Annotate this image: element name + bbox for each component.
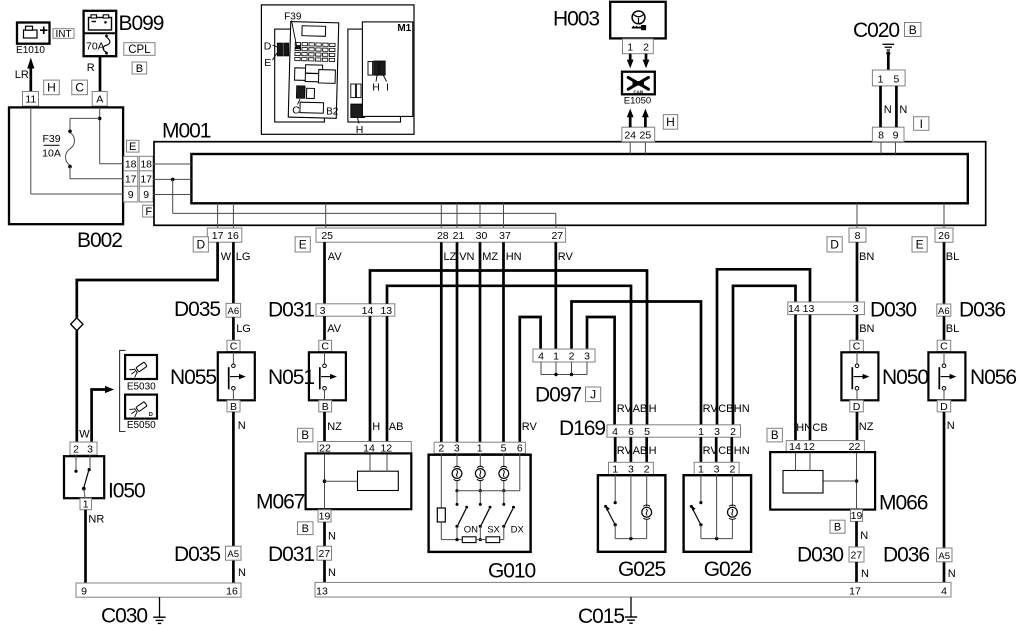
svg-text:16: 16 (226, 586, 238, 598)
svg-text:9: 9 (128, 189, 134, 201)
svg-text:3: 3 (714, 463, 720, 475)
svg-text:A6: A6 (938, 306, 950, 317)
svg-text:27: 27 (318, 548, 330, 560)
svg-text:1: 1 (612, 463, 618, 475)
svg-text:H003: H003 (553, 8, 599, 31)
svg-text:B2: B2 (326, 107, 339, 118)
svg-text:N: N (947, 420, 955, 432)
svg-text:I: I (920, 117, 923, 131)
svg-text:C030: C030 (101, 605, 147, 625)
svg-text:C020: C020 (853, 19, 899, 42)
svg-text:RV: RV (522, 421, 538, 433)
svg-text:J: J (590, 388, 596, 402)
svg-text:2: 2 (729, 463, 735, 475)
svg-text:HN: HN (734, 403, 750, 415)
svg-text:D: D (830, 238, 839, 252)
svg-text:25: 25 (321, 230, 333, 242)
svg-text:2: 2 (643, 42, 649, 54)
svg-text:26: 26 (938, 230, 950, 242)
svg-text:B: B (834, 522, 841, 534)
svg-text:BL: BL (946, 323, 959, 335)
svg-text:27: 27 (551, 230, 563, 242)
svg-text:4: 4 (612, 426, 618, 438)
svg-text:I050: I050 (108, 480, 145, 503)
svg-text:14: 14 (362, 305, 374, 317)
svg-text:3: 3 (87, 443, 93, 455)
svg-text:2: 2 (73, 443, 79, 455)
svg-text:9: 9 (143, 189, 149, 201)
svg-text:LG: LG (236, 251, 251, 263)
svg-text:G010: G010 (488, 560, 536, 583)
svg-text:B002: B002 (77, 229, 122, 252)
svg-text:CAN: CAN (633, 89, 643, 94)
svg-text:H: H (649, 445, 657, 457)
svg-text:25: 25 (640, 130, 652, 142)
svg-text:M001: M001 (162, 120, 211, 143)
svg-text:AB: AB (633, 445, 648, 457)
svg-text:B: B (909, 23, 917, 37)
svg-text:16: 16 (227, 230, 239, 242)
svg-text:D: D (149, 412, 153, 418)
svg-text:1: 1 (627, 42, 633, 54)
svg-text:C: C (230, 341, 238, 353)
svg-text:CB: CB (718, 403, 733, 415)
svg-text:17: 17 (140, 174, 152, 186)
svg-text:1: 1 (553, 351, 559, 363)
svg-text:C: C (940, 341, 948, 353)
svg-text:R: R (87, 62, 95, 74)
svg-text:A5: A5 (938, 551, 950, 562)
svg-text:RV: RV (558, 251, 574, 263)
svg-text:D030: D030 (797, 544, 843, 567)
svg-text:CPL: CPL (128, 44, 151, 56)
svg-text:BL: BL (946, 251, 959, 263)
svg-text:N: N (899, 104, 907, 116)
svg-text:D035: D035 (174, 543, 220, 566)
svg-text:17: 17 (212, 230, 224, 242)
svg-text:AV: AV (328, 251, 343, 263)
svg-text:DX: DX (511, 525, 525, 536)
svg-text:3: 3 (628, 463, 634, 475)
svg-text:D036: D036 (959, 299, 1005, 322)
svg-text:F39: F39 (42, 133, 60, 145)
svg-text:9: 9 (81, 586, 87, 598)
svg-text:ON: ON (464, 525, 478, 536)
svg-text:17: 17 (849, 585, 861, 597)
svg-text:19: 19 (319, 511, 331, 523)
svg-text:3: 3 (714, 426, 720, 438)
svg-text:4: 4 (941, 585, 947, 597)
svg-text:8: 8 (878, 130, 884, 142)
svg-text:I: I (386, 82, 389, 94)
svg-text:M066: M066 (879, 492, 928, 515)
svg-text:28: 28 (437, 230, 449, 242)
svg-text:LG: LG (236, 323, 251, 335)
svg-text:G025: G025 (618, 558, 666, 581)
svg-text:1: 1 (477, 443, 483, 455)
svg-text:2: 2 (569, 351, 575, 363)
svg-text:RV: RV (703, 403, 719, 415)
svg-text:9: 9 (893, 130, 899, 142)
svg-text:D169: D169 (559, 417, 605, 440)
svg-text:BN: BN (859, 251, 874, 263)
svg-text:H: H (47, 81, 56, 95)
svg-text:N: N (328, 531, 336, 543)
svg-text:A: A (96, 94, 103, 106)
svg-text:MZ: MZ (482, 251, 498, 263)
svg-text:M067: M067 (256, 491, 305, 514)
svg-text:70A: 70A (86, 41, 105, 53)
svg-text:B: B (301, 430, 309, 442)
svg-text:2: 2 (438, 443, 444, 455)
svg-text:N051: N051 (268, 366, 314, 389)
svg-text:D: D (853, 401, 861, 413)
svg-text:E1050: E1050 (624, 95, 651, 106)
svg-text:RV: RV (617, 403, 633, 415)
svg-text:E: E (264, 57, 271, 69)
svg-text:13: 13 (316, 585, 328, 597)
svg-text:N: N (948, 568, 956, 580)
svg-text:M1: M1 (397, 23, 411, 34)
svg-text:3: 3 (320, 305, 326, 317)
svg-text:1: 1 (698, 463, 704, 475)
svg-text:5: 5 (893, 74, 899, 86)
svg-text:D: D (940, 401, 948, 413)
svg-text:21: 21 (453, 230, 465, 242)
svg-text:D030: D030 (870, 299, 916, 322)
svg-text:1: 1 (878, 74, 884, 86)
svg-text:24: 24 (624, 130, 636, 142)
svg-text:B: B (771, 430, 779, 442)
svg-text:B: B (322, 401, 329, 413)
svg-text:19: 19 (851, 510, 863, 522)
svg-text:INT: INT (55, 29, 71, 40)
svg-text:3: 3 (853, 303, 859, 315)
svg-text:14: 14 (788, 303, 800, 315)
svg-text:HN: HN (796, 422, 812, 434)
svg-text:D097: D097 (535, 384, 581, 407)
svg-text:E1010: E1010 (16, 45, 45, 56)
svg-text:1: 1 (83, 498, 89, 510)
svg-text:A5: A5 (227, 549, 239, 560)
svg-text:C: C (75, 81, 84, 95)
svg-text:W: W (79, 429, 90, 441)
svg-text:F: F (145, 206, 152, 218)
svg-text:VN: VN (459, 251, 474, 263)
svg-text:3: 3 (454, 443, 460, 455)
svg-text:H: H (372, 82, 380, 94)
svg-text:N055: N055 (170, 366, 216, 389)
svg-text:10A: 10A (42, 148, 61, 160)
svg-text:B: B (230, 401, 237, 413)
svg-text:+: + (39, 22, 48, 39)
svg-text:G026: G026 (704, 558, 752, 581)
svg-text:H: H (649, 403, 657, 415)
svg-text:1: 1 (698, 426, 704, 438)
svg-text:D: D (196, 238, 205, 252)
svg-text:4: 4 (538, 351, 544, 363)
svg-text:3: 3 (584, 351, 590, 363)
svg-text:D031: D031 (268, 543, 314, 566)
svg-text:8: 8 (855, 230, 861, 242)
svg-text:2: 2 (730, 426, 736, 438)
svg-text:H: H (356, 124, 364, 136)
svg-text:C015: C015 (578, 605, 624, 625)
svg-text:BN: BN (859, 323, 874, 335)
svg-text:B099: B099 (119, 12, 164, 35)
svg-text:D036: D036 (883, 544, 929, 567)
svg-text:LR: LR (15, 69, 29, 81)
svg-text:N: N (238, 567, 246, 579)
svg-text:N: N (884, 104, 892, 116)
svg-text:HN: HN (506, 251, 522, 263)
svg-text:13: 13 (380, 305, 392, 317)
svg-text:AB: AB (389, 421, 404, 433)
svg-text:NZ: NZ (327, 421, 342, 433)
svg-text:A6: A6 (227, 306, 239, 317)
svg-text:D035: D035 (174, 298, 220, 321)
svg-text:C: C (853, 341, 861, 353)
svg-text:W: W (221, 251, 232, 263)
svg-text:E: E (299, 238, 307, 252)
svg-text:E5050: E5050 (127, 420, 156, 431)
svg-text:N050: N050 (882, 366, 928, 389)
svg-text:B: B (136, 63, 143, 75)
svg-text:13: 13 (803, 303, 815, 315)
svg-text:LZ: LZ (444, 251, 457, 263)
svg-text:30: 30 (476, 230, 488, 242)
svg-text:C: C (321, 341, 329, 353)
svg-text:5: 5 (501, 443, 507, 455)
svg-text:6: 6 (628, 426, 634, 438)
svg-text:5: 5 (644, 426, 650, 438)
svg-text:F39: F39 (284, 12, 302, 23)
svg-text:N: N (860, 530, 868, 542)
svg-text:H: H (666, 115, 675, 129)
svg-text:18: 18 (140, 158, 152, 170)
svg-text:N: N (238, 420, 246, 432)
svg-text:N: N (861, 568, 869, 580)
svg-text:NZ: NZ (859, 421, 874, 433)
svg-text:N056: N056 (970, 366, 1016, 389)
svg-text:D031: D031 (268, 299, 314, 322)
svg-text:N: N (328, 567, 336, 579)
svg-text:D: D (264, 41, 272, 53)
svg-text:E5030: E5030 (127, 382, 156, 393)
svg-text:NR: NR (88, 513, 104, 525)
svg-text:B: B (302, 523, 309, 535)
svg-text:C: C (292, 105, 300, 117)
svg-text:SX: SX (487, 525, 500, 536)
svg-text:E: E (916, 238, 924, 252)
svg-text:11: 11 (25, 94, 36, 106)
svg-text:37: 37 (499, 230, 511, 242)
svg-text:CB: CB (812, 422, 827, 434)
svg-text:6: 6 (517, 443, 523, 455)
svg-text:E: E (129, 141, 136, 153)
svg-text:17: 17 (125, 174, 137, 186)
svg-text:AV: AV (327, 323, 342, 335)
svg-text:HN: HN (734, 445, 750, 457)
svg-text:18: 18 (125, 158, 137, 170)
svg-text:27: 27 (851, 550, 863, 562)
svg-text:H: H (372, 421, 380, 433)
svg-text:2: 2 (644, 463, 650, 475)
svg-text:AB: AB (633, 403, 648, 415)
